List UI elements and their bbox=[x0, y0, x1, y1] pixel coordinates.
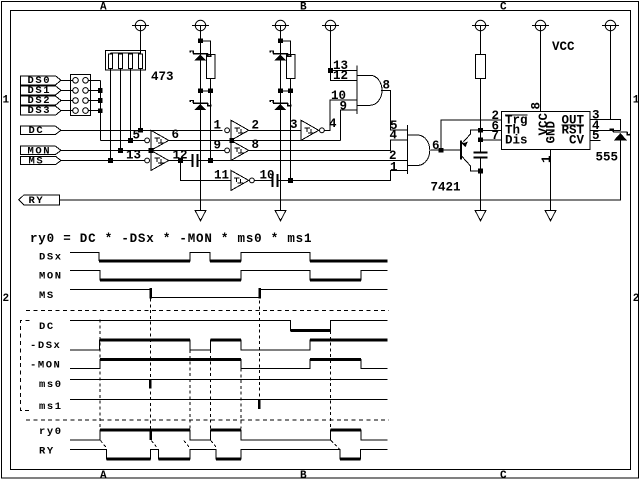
svg-text:13: 13 bbox=[126, 148, 141, 162]
resistor R1 bbox=[207, 55, 216, 79]
junction net1 main bbox=[198, 89, 203, 94]
svg-text:C: C bbox=[500, 470, 507, 480]
inverter A (7414 5-6) input bubble bbox=[145, 138, 150, 143]
555 pin 5/CV stub bbox=[590, 140, 601, 142]
svg-text:B: B bbox=[300, 470, 307, 480]
ry0 retrigger tick bbox=[150, 429, 153, 440]
junction net2 main bbox=[278, 89, 283, 94]
junction MON / RP1 pin2 bbox=[118, 148, 123, 153]
inverter B triangle bbox=[151, 150, 169, 170]
inverter C (7414 1-2) input bubble bbox=[225, 128, 230, 133]
wire inverter A output (6 row) bbox=[169, 139, 341, 141]
wire C2 to 7421 pin 1 jog bbox=[279, 171, 408, 181]
svg-text:ms0: ms0 bbox=[39, 379, 63, 391]
transistor Q1 emitter arrow (PNP) bbox=[462, 142, 468, 148]
inverter A triangle bbox=[151, 130, 169, 150]
wire connector row1 to bus bbox=[88, 79, 100, 81]
ground arrow net1 bbox=[195, 210, 206, 220]
wire DSx bus to inverter A input bbox=[100, 139, 144, 141]
wire inverter C output to inverter F input bbox=[249, 129, 301, 131]
connector pin circles row 4 bbox=[73, 108, 79, 114]
svg-text:11: 11 bbox=[214, 169, 229, 183]
resistor R5 bbox=[476, 55, 486, 79]
wire Th to 555 pin 6 bbox=[481, 129, 502, 131]
connector pin circles row 2 bbox=[73, 88, 79, 94]
junction 12-row after C1 bbox=[208, 158, 213, 163]
transistor Q1 collector lead bbox=[462, 156, 478, 171]
wire connector row2 to bus bbox=[88, 89, 100, 91]
resistor R5 wire down bbox=[480, 79, 482, 153]
gate1 output wire to pin5 of gate2 bbox=[381, 90, 407, 130]
waveform ms1 baseline bbox=[70, 399, 388, 401]
waveform MS bbox=[70, 289, 388, 297]
svg-text:RY: RY bbox=[29, 195, 45, 207]
wire connector row4 to bus bbox=[88, 110, 100, 112]
inverter F output bubble bbox=[320, 128, 325, 133]
capacitor C3 plates bbox=[474, 153, 488, 158]
D1 vertical wire bbox=[200, 31, 202, 91]
capacitor C2 plates bbox=[273, 174, 278, 187]
ms1 low tick bbox=[258, 400, 261, 410]
wire DS2 to connector bbox=[61, 100, 73, 102]
resistor pack RP1 outline bbox=[106, 51, 146, 71]
wire junction down to inverter D input bbox=[181, 161, 231, 181]
inverter E (7414 9-8) input bubble bbox=[225, 148, 230, 153]
waveform MON bbox=[70, 270, 388, 280]
wire MON row bbox=[61, 149, 225, 151]
junction 6-row at inverter C/D edge bbox=[229, 138, 234, 143]
wire 6-row up to 7421 pin 9 bbox=[341, 110, 358, 140]
junction Dis node bbox=[478, 138, 483, 143]
AND gate U2B (7421) body bbox=[407, 125, 430, 174]
capacitor C1 plates bbox=[193, 154, 198, 167]
resistor R2 bbox=[287, 55, 296, 79]
svg-text:ry0: ry0 bbox=[39, 426, 63, 438]
svg-text:1: 1 bbox=[390, 160, 398, 174]
resistor pack element 3 bbox=[129, 54, 133, 69]
transistor Q1 base bar bbox=[460, 140, 462, 159]
waveform -DSx bbox=[70, 340, 388, 350]
wire down to pin12 bbox=[331, 70, 358, 80]
svg-text:1: 1 bbox=[633, 95, 640, 107]
diode network 2: junction at top bbox=[278, 39, 283, 44]
svg-text:B: B bbox=[300, 2, 307, 14]
junction inverter A/B corner on MON row bbox=[149, 148, 154, 153]
schottky diode D5 triangle bbox=[614, 133, 627, 140]
wire RP1 pin4 to DC row bbox=[140, 69, 142, 131]
net flag MS bbox=[21, 156, 62, 164]
svg-text:1: 1 bbox=[3, 95, 10, 107]
D3 vertical wire bbox=[280, 31, 282, 91]
wire to R1 branch bbox=[201, 41, 211, 54]
svg-text:DC: DC bbox=[29, 125, 45, 137]
svg-text:Dis: Dis bbox=[505, 133, 528, 147]
dashed separator upper bbox=[26, 310, 389, 312]
diode network 1: junction at top bbox=[198, 39, 203, 44]
svg-text:473: 473 bbox=[151, 70, 174, 84]
inverter D (7414 11-10) input wire already above; triangle bbox=[231, 170, 249, 190]
junction 10-row / R2 branch bbox=[288, 178, 293, 183]
svg-text:2: 2 bbox=[633, 293, 640, 305]
svg-text:MS: MS bbox=[29, 155, 45, 167]
wire net2 junction pair bbox=[281, 90, 291, 92]
net flag DC bbox=[21, 126, 62, 134]
schottky diode D5 bar with curls bbox=[610, 129, 630, 135]
waveform DSx bbox=[70, 253, 388, 261]
svg-text:8: 8 bbox=[383, 78, 391, 92]
MS bold edge ticks bbox=[151, 288, 260, 299]
junction bus DS1 bbox=[98, 88, 103, 93]
gridline t=241 bbox=[240, 369, 242, 429]
R1 lower wire bbox=[210, 79, 212, 161]
connector pin circles row 3 bbox=[73, 98, 79, 104]
wire Dis to 555 pin 7 bbox=[481, 139, 502, 141]
svg-text:8: 8 bbox=[530, 102, 544, 110]
inverter E triangle bbox=[231, 140, 249, 160]
gridline t=190 bbox=[189, 350, 191, 429]
net flag DS2 bbox=[21, 96, 62, 105]
D5 wire down to RY row bbox=[60, 140, 621, 200]
waveform ry0 bbox=[70, 430, 388, 440]
C3 bottom wire bbox=[480, 158, 482, 210]
inverter D hysteresis bbox=[234, 178, 243, 184]
schottky diode D3 bar with curls bbox=[270, 51, 291, 56]
svg-text:GND: GND bbox=[545, 120, 559, 143]
wire inverter D output to cap C2 bbox=[254, 179, 272, 181]
inverter E hysteresis bbox=[235, 148, 244, 154]
inverter C triangle bbox=[231, 120, 249, 140]
wire inverter E output (8 row) to 7421 pin 4 jog bbox=[249, 140, 408, 151]
junction 12-row before C1 bbox=[178, 158, 183, 163]
wire inverter B output to cap C1 bbox=[169, 160, 192, 162]
svg-text:7: 7 bbox=[492, 129, 500, 143]
wire RP1 pin3 to DSx row bbox=[130, 69, 132, 141]
svg-text:5: 5 bbox=[133, 129, 141, 143]
svg-text:RY: RY bbox=[39, 446, 55, 458]
inverter B hysteresis bbox=[155, 158, 164, 164]
wire RP1 pin1 to MS row bbox=[110, 69, 112, 161]
dashed bracket left bbox=[21, 320, 30, 410]
schottky diode D4 triangle bbox=[275, 104, 287, 110]
waveform -MON bbox=[70, 360, 388, 369]
555 timer U3 box bbox=[502, 112, 591, 150]
wire gate2 output up to 555 Trg bbox=[441, 120, 501, 148]
waveform RY bbox=[70, 450, 388, 459]
wire DC row bbox=[61, 129, 223, 131]
net flag DS0 bbox=[21, 76, 62, 85]
wire DS1 to connector bbox=[61, 89, 73, 91]
555 pin 4/RST wire bbox=[590, 130, 621, 132]
inverter A hysteresis bbox=[155, 138, 164, 144]
inverter C hysteresis bbox=[235, 128, 244, 134]
schottky diode D3 triangle bbox=[275, 55, 287, 61]
gridline t=260 bbox=[259, 301, 261, 409]
wire C1 to 7421 pin 2 bbox=[199, 160, 408, 162]
inverter F hysteresis bbox=[305, 128, 314, 134]
resistor pack common bus bbox=[111, 53, 141, 54]
net flag RY (left pointing) bbox=[19, 195, 60, 205]
svg-text:4: 4 bbox=[390, 128, 398, 142]
svg-text:DS3: DS3 bbox=[28, 105, 52, 117]
wire pin13 bbox=[331, 69, 358, 71]
svg-text:1: 1 bbox=[540, 155, 554, 163]
dashed separator lower bbox=[26, 419, 389, 421]
junction net2 branch bbox=[288, 89, 293, 94]
svg-text:3: 3 bbox=[290, 118, 298, 132]
transistor Q1 emitter lead bbox=[462, 130, 478, 144]
svg-text:6: 6 bbox=[432, 139, 440, 153]
ground arrow 555 bbox=[545, 210, 556, 220]
net flag DS3 bbox=[21, 106, 62, 115]
svg-text:VCC: VCC bbox=[552, 40, 575, 54]
connector J1 body bbox=[71, 75, 91, 116]
inverter F (7414 3-4) triangle bbox=[301, 120, 319, 140]
ground arrow Q1/C3 bbox=[475, 210, 486, 220]
svg-text:1: 1 bbox=[214, 118, 222, 132]
svg-text:-DSx: -DSx bbox=[30, 340, 61, 352]
gridline t=150.5 bbox=[150, 299, 152, 429]
C3 top wire bbox=[480, 140, 482, 152]
junction bus DS2 bbox=[98, 98, 103, 103]
inverter D output bubble bbox=[250, 178, 255, 183]
junction Th node bbox=[478, 128, 483, 133]
schottky diode D2 triangle bbox=[195, 104, 207, 110]
svg-text:A: A bbox=[100, 2, 107, 14]
VCC symbol 6 (to 555 pin 8) bbox=[532, 20, 549, 111]
junction gate2 output bbox=[439, 148, 444, 153]
svg-text:7421: 7421 bbox=[431, 180, 461, 194]
555 pin 1 wire to ground bbox=[549, 150, 551, 211]
DSx bus vertical wire bbox=[99, 80, 101, 140]
svg-text:MON: MON bbox=[39, 271, 63, 283]
resistor pack element 1 bbox=[109, 54, 113, 69]
gridline t=330 bbox=[329, 331, 331, 429]
svg-text:ry0 = DC * -DSx * -MON * ms0 *: ry0 = DC * -DSx * -MON * ms0 * ms1 bbox=[30, 232, 312, 246]
net flag MON bbox=[21, 146, 62, 154]
wire connector row3 to bus bbox=[88, 100, 100, 102]
svg-text:9: 9 bbox=[214, 139, 222, 153]
junction DSx bus / RP1 pin3 bbox=[128, 138, 133, 143]
svg-text:A: A bbox=[100, 470, 107, 480]
wire RP1 pin2 to MON row bbox=[120, 69, 122, 151]
VCC symbol 3 (net at x=280) bbox=[272, 20, 289, 38]
junction C3 bottom / collector bbox=[478, 169, 483, 174]
gridline t=100 bbox=[99, 320, 101, 429]
schottky diode D4 bar with curls bbox=[270, 101, 291, 106]
svg-text:2: 2 bbox=[3, 293, 10, 305]
waveform ms0 baseline bbox=[70, 379, 388, 381]
inverter B (7414 13-12) input bubble bbox=[145, 158, 150, 163]
ground arrow net2 bbox=[275, 210, 286, 220]
svg-text:ms1: ms1 bbox=[39, 401, 63, 413]
delay diagonal 5 bbox=[331, 441, 340, 450]
wire MS row bbox=[61, 160, 145, 162]
delay diagonal 4 bbox=[211, 441, 218, 449]
delay diagonal 1 bbox=[101, 441, 108, 449]
VCC symbol 5 (to resistor R5) bbox=[472, 20, 489, 54]
svg-text:555: 555 bbox=[596, 151, 619, 165]
gate2 output wire bbox=[431, 149, 461, 151]
svg-text:9: 9 bbox=[340, 99, 348, 113]
junction net1 branch bbox=[208, 89, 213, 94]
VCC symbol 2 (net at x=200) bbox=[192, 20, 209, 38]
svg-text:DSx: DSx bbox=[39, 251, 63, 263]
D2 to ground wire bbox=[200, 91, 202, 211]
wire DS0 to connector bbox=[61, 79, 73, 81]
ms0 low tick bbox=[149, 380, 152, 389]
svg-text:CV: CV bbox=[569, 133, 585, 147]
AND gate U2A (7421) body bbox=[357, 66, 382, 115]
schottky diode D1 triangle bbox=[195, 55, 207, 61]
VCC symbol 4 (to 7421 pins 13,12) bbox=[322, 20, 339, 68]
schottky diode D1 bar with curls bbox=[190, 51, 211, 56]
555 pin 3/OUT wire bbox=[590, 120, 621, 131]
delay diagonal 2 bbox=[151, 441, 158, 449]
svg-text:-MON: -MON bbox=[30, 359, 61, 371]
connector pin circles row 1 bbox=[73, 78, 79, 84]
wire to R2 branch bbox=[281, 41, 291, 54]
junction bus DS3 bbox=[98, 108, 103, 113]
svg-text:MS: MS bbox=[39, 290, 55, 302]
wire net1 junction pair bbox=[201, 90, 211, 92]
svg-text:12: 12 bbox=[333, 69, 348, 83]
waveform DC bbox=[70, 320, 388, 330]
svg-text:C: C bbox=[500, 2, 507, 14]
junction VCC4 / 7421 pin13 bbox=[328, 68, 333, 73]
VCC symbol 1 (above resistor pack) bbox=[132, 20, 149, 54]
net flag DS1 bbox=[21, 86, 62, 95]
resistor pack element 2 bbox=[119, 54, 123, 69]
junction DC / RP1 pin4 bbox=[138, 128, 143, 133]
wire inverter F output up to 7421 pin 10 bbox=[324, 100, 357, 130]
wire DS3 to connector bbox=[61, 110, 73, 112]
svg-text:DC: DC bbox=[39, 321, 55, 333]
resistor pack element 4 bbox=[139, 54, 143, 69]
R2 lower wire bbox=[290, 79, 292, 181]
D4 to ground wire bbox=[280, 91, 282, 211]
VCC symbol 7 (to 555 OUT pullup) bbox=[602, 20, 619, 119]
delay diagonal 3 bbox=[184, 441, 191, 449]
schottky diode D2 bar with curls bbox=[190, 101, 211, 106]
junction MS / RP1 pin1 bbox=[108, 158, 113, 163]
gridline t=210 bbox=[209, 350, 211, 429]
